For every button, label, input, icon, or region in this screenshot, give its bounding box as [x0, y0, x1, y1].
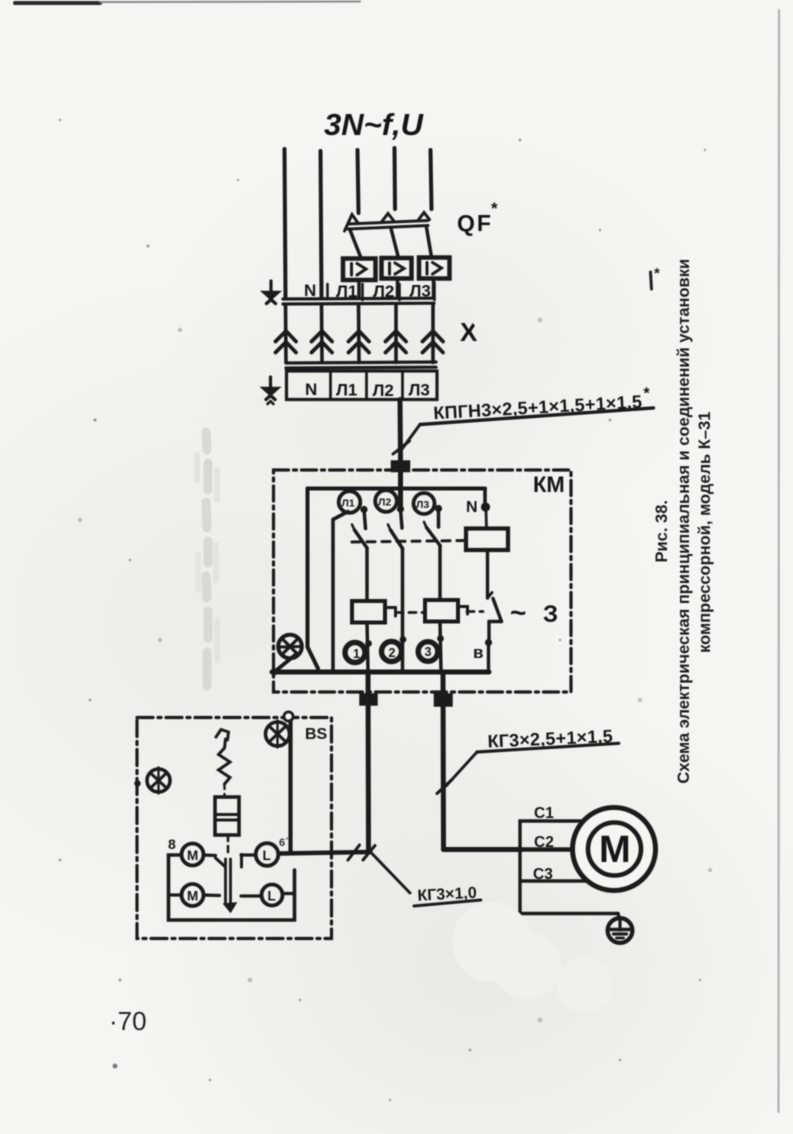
contact blade pole2 — [391, 530, 403, 549]
wire drop L1 — [357, 305, 361, 363]
contactor input terminal L2 — [375, 490, 397, 512]
node dot pole1 — [360, 506, 367, 513]
cable slash mark — [393, 441, 410, 454]
heater zigzag — [219, 748, 231, 784]
svg-text:Л2: Л2 — [378, 497, 391, 509]
earth screw circle BS top — [266, 722, 290, 746]
footnote mark near caption — [651, 272, 652, 289]
contact blade pole1 — [355, 530, 368, 548]
wire pole3 to terminal — [440, 622, 441, 672]
contact stub pole2 — [401, 509, 403, 528]
node dot on border — [134, 780, 140, 786]
arrow chevrons on each conductor — [276, 331, 444, 353]
connector X terminal strip 2 — [262, 362, 438, 404]
earth screw circle KM — [278, 635, 302, 659]
svg-text:QF: QF — [457, 210, 493, 236]
wire supply line L3 — [431, 150, 432, 209]
svg-text:3N~f,U: 3N~f,U — [324, 107, 425, 142]
earth screw circle BS left — [147, 769, 170, 792]
wire pole3 lower — [438, 546, 442, 601]
leader line to junction — [370, 852, 410, 894]
KM inner frame left — [308, 489, 319, 669]
cable terminal square KM exit 1 — [360, 694, 377, 705]
wire KM exit left down — [366, 672, 372, 852]
cable slash mark — [437, 779, 453, 794]
node dot pole3 — [435, 505, 442, 512]
busbar double line 2 — [286, 362, 436, 363]
junction arrow mark — [363, 846, 375, 861]
svg-text:Л1: Л1 — [342, 498, 355, 510]
wire drop PE — [284, 305, 288, 363]
terminal divider ticks — [326, 284, 329, 299]
svg-text:С3: С3 — [533, 866, 553, 883]
scan specks — [59, 119, 706, 1101]
svg-text:КМ: КМ — [533, 472, 565, 497]
svg-text:BS: BS — [305, 726, 328, 743]
cable KPGN3 down wire — [392, 385, 654, 507]
svg-text:6´: 6´ — [279, 837, 289, 849]
svg-text:*: * — [491, 199, 498, 218]
svg-text:С1: С1 — [534, 805, 554, 822]
label QF* — [457, 199, 498, 236]
svg-text:Л3: Л3 — [416, 499, 429, 511]
svg-text:1: 1 — [353, 647, 360, 661]
QF blade pole 3 — [427, 228, 432, 258]
wire BS output to junction — [280, 852, 370, 854]
node 3N~f,U supply label — [324, 107, 425, 142]
svg-text:М: М — [187, 889, 198, 904]
motor M circle — [573, 808, 656, 891]
output terminal 2 — [382, 642, 402, 662]
coil KM — [466, 529, 508, 551]
inner wiring box — [169, 855, 295, 920]
thermal trip dashed line — [396, 611, 424, 614]
contact blade pole3 — [427, 528, 441, 546]
thermal NC contact — [488, 593, 493, 599]
label KG3x1,0 — [413, 885, 481, 906]
wire earth tail — [273, 654, 297, 674]
wire L2 left — [241, 894, 262, 897]
svg-text:Л1: Л1 — [336, 381, 357, 400]
svg-text:3: 3 — [425, 645, 432, 659]
svg-text:М: М — [187, 848, 198, 863]
svg-text:*: * — [643, 385, 651, 402]
wire M1 right — [204, 853, 216, 857]
thermal element KK1 — [352, 601, 385, 623]
svg-text:в: в — [473, 643, 483, 662]
QF actuator arrow 3 — [418, 213, 430, 222]
wire drop L3 — [431, 305, 435, 363]
svg-text:~: ~ — [510, 597, 526, 628]
leader line to cable — [402, 425, 420, 450]
ghost bleedthrough strip — [206, 432, 208, 686]
contact stub pole3 — [437, 509, 441, 528]
wire supply line L2 — [393, 148, 398, 209]
QF blade pole 1 — [350, 230, 361, 258]
svg-text:L: L — [263, 848, 271, 863]
N branch wire — [483, 489, 487, 504]
node dot pole2 — [397, 505, 404, 512]
contactor input terminal L3 — [414, 493, 435, 514]
svg-text:N: N — [305, 380, 317, 399]
thermal element KK2 — [425, 600, 458, 622]
line side contact L1 — [256, 843, 279, 866]
leader line to cable — [446, 752, 477, 786]
wire from L1 terminal to bus — [333, 512, 348, 672]
contact stub pole1 — [364, 510, 366, 529]
wire motor to earth — [618, 914, 620, 919]
ground symbol upper — [269, 281, 272, 291]
figure caption rotated — [652, 241, 717, 801]
heater element hook — [216, 730, 229, 741]
wire pole1 lower — [365, 548, 369, 601]
motor M terminal box — [520, 805, 656, 943]
svg-text:С2: С2 — [534, 834, 554, 851]
QF overcurrent release box 2 — [382, 258, 412, 279]
wire supply line N — [321, 151, 322, 297]
faint smudges — [452, 290, 613, 1013]
wire pole1 to terminal — [367, 623, 368, 672]
wire L2 right — [283, 892, 295, 895]
wire drop N — [320, 305, 324, 363]
page edge shadow line — [778, 10, 781, 1112]
scan edge artifact top — [15, 2, 360, 4]
wire supply line PE — [285, 149, 286, 297]
QF overcurrent release box 1 — [343, 259, 376, 281]
QF blade pole 2 — [391, 229, 399, 259]
KM bottom bus wire — [272, 670, 489, 675]
circuit breaker QF tie bar — [343, 199, 498, 297]
wire M2 right — [204, 893, 220, 897]
output terminal 3 — [418, 642, 438, 662]
wire supply line L1 — [358, 150, 359, 213]
terminal circle on top border — [284, 712, 293, 721]
KM inner frame top — [308, 487, 486, 491]
wire stub below box2 — [396, 279, 400, 298]
svg-text:Л2: Л2 — [373, 381, 394, 400]
cable terminal square KM exit 2 — [435, 694, 453, 706]
line side contact L2 — [262, 885, 283, 906]
wire drop L2 — [394, 305, 398, 363]
contactor KM dash-dot enclosure — [270, 470, 571, 706]
ground symbol lower — [269, 377, 272, 387]
QF actuator arrow 1 — [345, 215, 359, 232]
svg-text:L: L — [268, 889, 276, 904]
page number 70 — [109, 1006, 147, 1037]
wire stub below box1 — [357, 280, 361, 297]
label X* — [460, 307, 489, 347]
QF overcurrent release box 3 — [419, 258, 450, 279]
dashed link to switch — [227, 835, 230, 857]
terminal block rectangle — [287, 371, 438, 400]
svg-text:2: 2 — [389, 646, 396, 660]
cable terminal square at KM entry — [392, 461, 410, 472]
label KG3x2,5+1x1,5 — [476, 726, 619, 752]
svg-text:N: N — [304, 281, 316, 300]
sensing element box — [215, 797, 239, 835]
wire L1 left — [241, 853, 256, 856]
svg-text:М: М — [599, 829, 631, 871]
wire coil to NC contact — [486, 550, 489, 598]
mechanical linkage dashed — [352, 541, 466, 543]
motor side contact M1 — [182, 844, 204, 866]
cable slash mark on BS wire — [348, 845, 360, 860]
contactor input terminal L1 — [339, 491, 361, 513]
connector X arrows — [276, 305, 490, 363]
label KPGN3x2,5+1x1,5+1x1,5* — [419, 385, 654, 425]
busbar double line 1 — [283, 297, 434, 301]
contact tick right — [240, 855, 243, 868]
wire stub below box3 — [432, 279, 436, 298]
wire KM exit right down — [441, 672, 447, 850]
cable KG3x2.5 wires and labels — [280, 672, 619, 906]
connector X terminal strip 1 labels N L1 L2 L3 — [262, 281, 435, 304]
earth screw circle motor — [608, 918, 633, 943]
wire to motor C2 — [444, 847, 522, 852]
svg-text:8: 8 — [168, 836, 176, 852]
svg-text:Л3: Л3 — [409, 381, 430, 400]
contact tick left — [216, 858, 226, 867]
QF actuator arrow 2 — [382, 214, 394, 223]
output terminal 1 — [345, 643, 365, 663]
wire from top terminal down — [288, 721, 292, 853]
motor side contact M2 — [182, 884, 204, 906]
wire M2 left — [169, 893, 182, 896]
pressure switch BS dash-dot enclosure — [134, 712, 331, 939]
switch bar — [224, 859, 227, 904]
svg-text:З: З — [543, 601, 558, 628]
wire pole2 lower — [401, 549, 405, 672]
svg-text:КПГН3×2,5+1×1,5+1×1,5: КПГН3×2,5+1×1,5+1×1,5 — [433, 392, 643, 424]
svg-text:N: N — [466, 499, 478, 516]
